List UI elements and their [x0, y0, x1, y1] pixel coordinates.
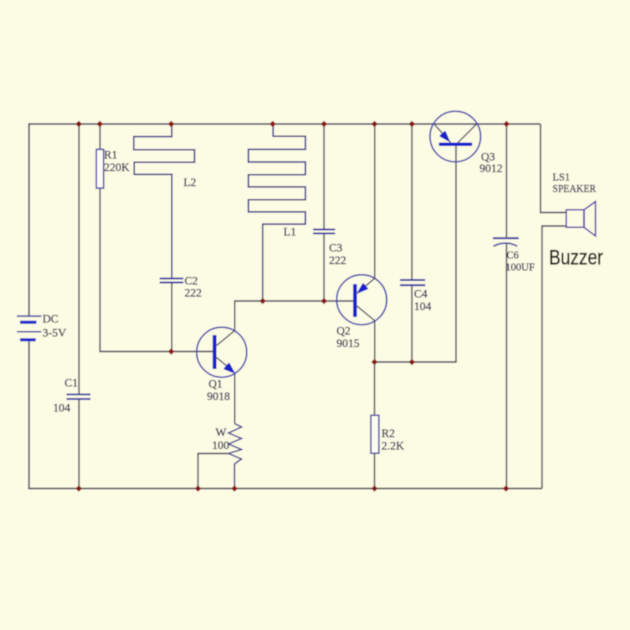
node dot top bus x506: [503, 121, 509, 127]
wire top bus: [29, 123, 541, 125]
svg-text:Q3: Q3: [481, 152, 495, 164]
svg-text:L2: L2: [184, 177, 197, 189]
transistor Q3 9012: [430, 111, 481, 162]
wire R1 bottom lead + Q1 base wire: [100, 188, 213, 351]
wire C2 bottom lead: [171, 283, 173, 352]
wire left rail upper: [28, 123, 30, 316]
wire bottom bus: [29, 488, 542, 490]
wire C6 branch lower: [506, 243, 508, 489]
svg-text:SPEAKER: SPEAKER: [553, 184, 597, 195]
transistor Q1 9018: [197, 327, 247, 377]
wire C3 bottom lead: [323, 234, 325, 301]
wire Q1 collector to Q2 base: [235, 301, 353, 331]
svg-text:222: 222: [329, 255, 347, 267]
wire left rail lower: [28, 340, 30, 489]
svg-text:W: W: [216, 427, 227, 439]
capacitor C4: [400, 280, 425, 285]
svg-text:100UF: 100UF: [506, 263, 535, 274]
node dot top bus x374: [371, 121, 377, 127]
svg-text:2.2K: 2.2K: [382, 441, 405, 453]
svg-text:220K: 220K: [104, 162, 130, 174]
wire Q3 base down and across to Q2 collector: [375, 146, 457, 362]
capacitor C3: [313, 230, 335, 234]
node dot bottom bus x79: [76, 485, 82, 491]
potentiometer W wiper wire: [198, 454, 229, 489]
svg-text:R1: R1: [104, 150, 118, 162]
svg-text:100: 100: [212, 440, 230, 452]
wire right vertical to speaker top: [541, 124, 567, 213]
wire C1 branch upper: [78, 124, 80, 394]
node dot top bus x79: [76, 121, 82, 127]
wire Q2 emitter vertical: [374, 124, 376, 278]
resistor R1: [96, 149, 103, 188]
capacitor C6 polarized: [493, 238, 519, 246]
potentiometer W zigzag: [229, 424, 242, 489]
wire Q2 collector vertical: [374, 321, 376, 362]
svg-text:C6: C6: [507, 251, 519, 262]
node dot y301 C3: [321, 298, 327, 304]
svg-text:C2: C2: [185, 276, 199, 288]
wire C6 branch upper: [506, 124, 508, 237]
wire C4 bottom lead: [411, 286, 413, 363]
svg-text:C1: C1: [65, 378, 79, 390]
svg-text:104: 104: [53, 403, 71, 415]
wire C1 branch lower: [78, 400, 80, 489]
svg-text:222: 222: [185, 288, 203, 300]
wire speaker bottom return: [542, 226, 566, 489]
node dot bottom bus x506: [503, 485, 509, 491]
inductor L2: [134, 124, 195, 278]
node dot top bus x171: [168, 121, 174, 127]
svg-text:Buzzer: Buzzer: [549, 247, 603, 270]
svg-text:Q1: Q1: [209, 379, 223, 391]
capacitor C1: [67, 394, 91, 399]
node dot top bus x324: [321, 121, 327, 127]
svg-text:LS1: LS1: [553, 173, 571, 184]
wire R1 top lead: [99, 124, 101, 149]
wire C3 branch upper: [323, 124, 325, 229]
svg-text:C3: C3: [329, 243, 343, 255]
node dot top bus x100: [97, 121, 103, 127]
wire R2 bottom lead: [374, 453, 376, 488]
node dot y301 L1: [260, 298, 266, 304]
svg-text:Q2: Q2: [337, 326, 351, 338]
speaker LS1: [566, 202, 595, 237]
svg-text:9012: 9012: [480, 163, 503, 175]
inductor L1: [248, 124, 305, 301]
svg-text:9018: 9018: [207, 391, 230, 403]
svg-text:104: 104: [414, 301, 432, 313]
capacitor C2: [160, 279, 184, 283]
wire R2 top lead: [374, 362, 376, 415]
node dot y362 C4: [409, 359, 415, 365]
wire C4 top lead: [411, 124, 413, 280]
node dot y362 Q2C: [371, 359, 377, 365]
resistor R2: [371, 415, 379, 453]
node dot top bus x273: [270, 121, 276, 127]
svg-text:DC: DC: [43, 314, 59, 326]
node dot bottom bus x198: [195, 485, 201, 491]
svg-text:C4: C4: [414, 289, 428, 301]
node dot top bus x412: [409, 121, 415, 127]
wire Q1 emitter vertical: [234, 372, 236, 424]
svg-text:9015: 9015: [337, 338, 360, 350]
transistor Q2 9015: [337, 275, 387, 325]
node dot base wire C2: [168, 348, 174, 354]
node dot bottom bus x374: [371, 485, 377, 491]
node dot bottom bus x234: [231, 485, 237, 491]
svg-text:L1: L1: [284, 227, 297, 239]
svg-text:R2: R2: [382, 428, 396, 440]
battery BT DC 3-5V: [17, 316, 42, 340]
svg-text:3-5V: 3-5V: [43, 328, 67, 340]
